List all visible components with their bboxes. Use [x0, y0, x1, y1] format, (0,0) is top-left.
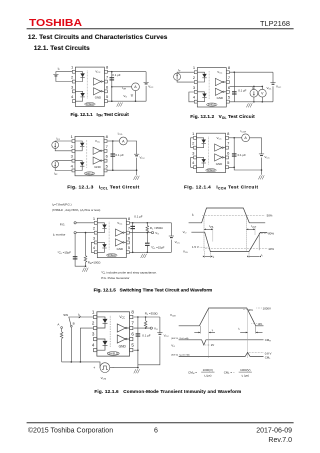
svg-text:CML = −: CML = −	[224, 370, 235, 375]
svg-text:2017-06-09: 2017-06-09	[256, 427, 292, 434]
svg-text:P.G. Pulse Generator: P.G. Pulse Generator	[101, 276, 129, 280]
svg-text:(f=5MHz , duty=50%, tr/tf=5ns: (f=5MHz , duty=50%, tr/tf=5ns or less)	[52, 208, 100, 213]
svg-text:Fig. 12.1.5 Switching Time T: Fig. 12.1.5 Switching Time Test Circuit …	[94, 287, 213, 292]
svg-text:0.1 μF: 0.1 μF	[238, 88, 246, 92]
svg-text:tr (μs): tr (μs)	[204, 374, 211, 378]
svg-text:CMH =: CMH =	[188, 370, 197, 375]
svg-text:TLP2168: TLP2168	[260, 19, 290, 28]
svg-text:RL =350Ω: RL =350Ω	[150, 226, 164, 231]
svg-text:Fig. 12.1.1 IOH Test Circuit: Fig. 12.1.1 IOH Test Circuit	[71, 112, 130, 118]
svg-text:0.1 μF: 0.1 μF	[112, 73, 120, 77]
svg-text:0.1 μF: 0.1 μF	[134, 215, 142, 219]
svg-text:1000V: 1000V	[263, 307, 271, 311]
svg-text:12.1. Test Circuits: 12.1. Test Circuits	[34, 45, 90, 52]
svg-text:0.1 μF: 0.1 μF	[142, 334, 150, 338]
svg-text:Fig. 12.1.2 VOL Test Circuit: Fig. 12.1.2 VOL Test Circuit	[190, 114, 255, 120]
svg-text:+: +	[93, 366, 95, 370]
svg-text:SW: SW	[63, 313, 68, 317]
svg-text:12. Test Circuits and Characte: 12. Test Circuits and Characteristics Cu…	[28, 34, 168, 41]
svg-text:6: 6	[154, 427, 158, 434]
svg-text:*CL =15pF: *CL =15pF	[151, 245, 165, 250]
svg-text:*CL includes probe and stray c: *CL includes probe and stray capacitance…	[101, 271, 157, 276]
svg-text:RM=100Ω: RM=100Ω	[88, 260, 101, 265]
svg-text:*CL =15pF: *CL =15pF	[58, 251, 72, 256]
svg-text:Fig. 12.1.4 ICCH Test Circui: Fig. 12.1.4 ICCH Test Circuit	[184, 185, 258, 191]
svg-text:0.1 μF: 0.1 μF	[238, 153, 246, 157]
svg-text:1.5 V: 1.5 V	[192, 245, 199, 249]
svg-text:IF monitor: IF monitor	[53, 232, 66, 237]
svg-text:0.1 μF: 0.1 μF	[116, 153, 124, 157]
svg-text:Rev.7.0: Rev.7.0	[268, 437, 292, 444]
svg-text:©2015 Toshiba Corporation: ©2015 Toshiba Corporation	[28, 426, 113, 434]
svg-text:10%: 10%	[268, 247, 274, 251]
svg-text:−: −	[112, 366, 114, 370]
svg-text:A: A	[57, 322, 59, 326]
svg-text:IF=7.8mA(P.G.): IF=7.8mA(P.G.)	[52, 203, 72, 208]
svg-text:50%: 50%	[267, 213, 273, 217]
svg-text:TOSHIBA: TOSHIBA	[29, 18, 83, 29]
svg-text:B: B	[73, 321, 75, 325]
svg-text:P.G.: P.G.	[60, 222, 66, 226]
svg-text:2V: 2V	[211, 343, 215, 347]
svg-text:10%: 10%	[258, 324, 263, 326]
svg-text:RL =350Ω: RL =350Ω	[145, 311, 159, 316]
svg-text:Fig. 12.1.3 ICCL Test Circui: Fig. 12.1.3 ICCL Test Circuit	[67, 185, 139, 191]
svg-text:1000(V): 1000(V)	[203, 368, 213, 372]
svg-text:1000(V): 1000(V)	[240, 368, 250, 372]
svg-text:90%: 90%	[248, 310, 253, 312]
svg-text:80%: 80%	[268, 232, 274, 236]
svg-text:tf (μs): tf (μs)	[242, 374, 249, 378]
svg-text:Fig. 12.1.6 Common-Mode Tran: Fig. 12.1.6 Common-Mode Transient Immuni…	[94, 389, 241, 394]
